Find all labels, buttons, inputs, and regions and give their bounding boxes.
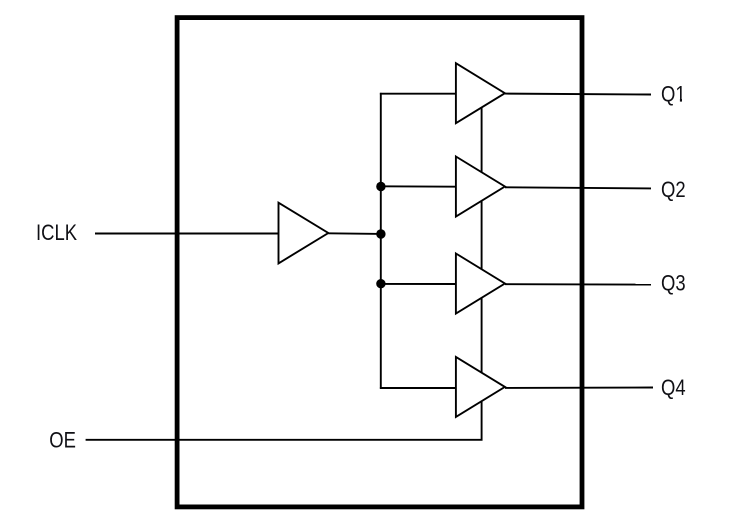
wire U1 output to bus junction node [328, 232, 381, 235]
wire vertical distribution bus [380, 93, 382, 389]
svg-text:OE: OE [49, 428, 76, 453]
wire Q3 output: buffer U4 apex to Q3 label [505, 283, 651, 285]
node label Q2 [661, 177, 686, 202]
svg-text:Q1: Q1 [661, 82, 686, 107]
wire Q2 output: buffer U3 apex to Q2 label [505, 187, 651, 188]
svg-text:Q3: Q3 [661, 271, 686, 296]
node junction dot on bus at Q3 branch [376, 279, 385, 288]
op-amp buffer U4 (Q3 output buffer) [456, 254, 505, 314]
node junction dot on bus at Q2 branch [376, 182, 385, 191]
wire ICLK input: from ICLK label into buffer U1 [95, 233, 279, 235]
wire Q3 branch: bus node to buffer U4 input [381, 283, 456, 285]
op-amp buffer U5 (Q4 output buffer) [456, 357, 505, 417]
svg-text:Q2: Q2 [661, 177, 686, 202]
op-amp buffer U2 (Q1 output buffer) [456, 63, 505, 123]
op-amp buffer U1 (ICLK input buffer) [279, 203, 329, 264]
node junction dot on bus at ICLK feed [376, 229, 385, 238]
node label Q1 [661, 82, 686, 107]
node label Q4 [661, 375, 686, 400]
wire Q2 branch: bus node to buffer U3 input [381, 185, 456, 187]
svg-text:Q4: Q4 [661, 375, 686, 400]
node label ICLK [36, 220, 77, 245]
node label Q3 [661, 271, 686, 296]
wire OE net: horizontal run from OE label, then vertical enable column up through buffer enable pins [86, 108, 482, 440]
wire Q1 branch: bus corner to buffer U2 input [380, 93, 456, 95]
wire Q1 output: buffer U2 apex to Q1 label [505, 93, 651, 96]
device outline box [177, 18, 582, 507]
wire Q4 branch: bus corner to buffer U5 input [380, 387, 456, 389]
op-amp buffer U3 (Q2 output buffer) [456, 157, 505, 217]
node label OE [49, 428, 76, 453]
svg-text:ICLK: ICLK [36, 220, 77, 245]
wire Q4 output: buffer U5 apex to Q4 label [505, 387, 653, 389]
